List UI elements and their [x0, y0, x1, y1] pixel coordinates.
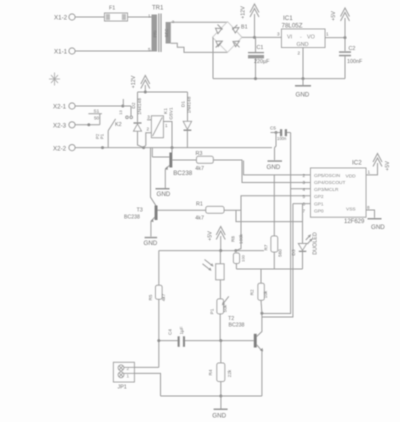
jumper JP1 [113, 362, 134, 390]
svg-text:3: 3 [277, 32, 280, 37]
node +12V junction [253, 36, 256, 39]
svg-text:P1: P1 [100, 133, 105, 139]
node R5 C4 [157, 339, 160, 342]
capacitor C2 [339, 38, 363, 79]
svg-text:D2: D2 [131, 102, 137, 108]
svg-text:F1: F1 [109, 6, 115, 12]
resistor R5 [148, 251, 166, 368]
node R8 on +5V rail [234, 249, 237, 252]
svg-text:D1: D1 [180, 101, 186, 107]
svg-text:GND: GND [296, 92, 310, 99]
svg-text:R4: R4 [208, 369, 213, 375]
svg-text:2: 2 [127, 366, 130, 371]
svg-text:100: 100 [241, 254, 246, 261]
node +12V relay [144, 91, 147, 94]
resistor R7 vertical to GP5 [264, 175, 283, 269]
transistor T4 [152, 148, 196, 188]
wire X2-3 [75, 124, 100, 126]
capacitor C1 [248, 37, 270, 78]
svg-text:12F629: 12F629 [344, 219, 365, 225]
capacitor C4 [168, 326, 186, 346]
svg-text:560: 560 [277, 249, 282, 257]
wire R1 to GP2 net [224, 209, 241, 211]
wire R3 to GP4 [213, 160, 310, 183]
svg-text:-: - [300, 35, 302, 41]
svg-text:+5V: +5V [331, 11, 337, 21]
wire GP1 vertical pair [262, 204, 293, 317]
transistor T3 [124, 148, 206, 237]
svg-text:50: 50 [94, 116, 100, 121]
svg-text:4k7: 4k7 [195, 166, 204, 172]
svg-text:+12V: +12V [241, 6, 247, 19]
wire F1 to TR1 [128, 16, 152, 18]
svg-text:X1-2: X1-2 [54, 15, 68, 22]
wire 0V rail psu [213, 78, 345, 80]
svg-text:T3: T3 [137, 208, 143, 214]
capacitor R8 branch [230, 233, 245, 269]
svg-text:X2-1: X2-1 [53, 104, 67, 111]
svg-text:1N4148: 1N4148 [187, 96, 193, 113]
svg-text:PRI: PRI [153, 31, 158, 38]
ground IC2 [368, 218, 386, 231]
svg-text:BC238: BC238 [124, 215, 140, 221]
wire cathode rail y269 [236, 268, 302, 270]
node R4 bottom [219, 395, 222, 398]
transformer TR1 [148, 6, 175, 53]
wire IC1 out [325, 37, 345, 39]
svg-text:220µF: 220µF [254, 59, 270, 65]
node X2-1 junction [121, 105, 124, 108]
svg-text:1: 1 [326, 32, 329, 37]
svg-text:1N4148: 1N4148 [137, 98, 143, 115]
wire C5 node to mid gnd [275, 133, 277, 148]
svg-text:VDD: VDD [346, 173, 357, 179]
ground psu [295, 79, 311, 99]
svg-text:78L05Z: 78L05Z [282, 23, 303, 30]
svg-text:1: 1 [368, 170, 371, 175]
svg-text:C5: C5 [270, 126, 276, 131]
pin labels P2 P1 [95, 133, 105, 139]
node C1 bottom [254, 77, 257, 80]
svg-text:+5V: +5V [385, 161, 391, 171]
svg-text:+12V: +12V [131, 75, 137, 88]
node T2 collector [260, 312, 263, 315]
svg-text:GND: GND [212, 412, 226, 419]
wire X1-1 to TR1 [75, 50, 151, 52]
wire TR1 secondary top to bridge [171, 21, 228, 23]
svg-text:GND: GND [267, 164, 281, 171]
wire GP1 to LED [302, 204, 304, 244]
svg-text:DUOLED: DUOLED [312, 232, 318, 255]
svg-text:100n: 100n [277, 136, 287, 141]
node IC1 gnd [302, 77, 305, 80]
wire R1 tap to LED [236, 210, 303, 221]
svg-text:JP1: JP1 [118, 385, 127, 391]
svg-text:K1: K1 [163, 108, 169, 114]
svg-text:5: 5 [302, 194, 305, 199]
terminal X2-3 [53, 122, 75, 130]
wire GP1 pin [293, 203, 311, 205]
wire bottom rail [161, 395, 262, 397]
svg-text:2: 2 [147, 127, 150, 132]
wire base node line [159, 340, 254, 342]
svg-text:4: 4 [302, 187, 305, 192]
svg-text:1: 1 [148, 14, 151, 19]
wire GP3 pin [291, 188, 311, 190]
svg-text:50k: 50k [223, 304, 228, 312]
svg-text:R8: R8 [230, 236, 235, 242]
diode D2 [131, 92, 144, 148]
wire X2-1 [75, 105, 131, 107]
diode D1 [180, 92, 192, 148]
node X2-3 junction [87, 123, 90, 126]
node D2 bottom rail [142, 146, 145, 149]
node X2-2 junction [101, 146, 104, 149]
svg-text:GP1: GP1 [314, 202, 324, 208]
resistor R3 [195, 151, 213, 172]
node +5V junction [344, 36, 347, 39]
svg-text:GND: GND [144, 240, 158, 247]
svg-text:13: 13 [118, 110, 123, 115]
svg-text:1: 1 [127, 373, 130, 378]
resistor R2 [250, 269, 269, 313]
ground T4 [156, 188, 171, 198]
wire JP1 pin2 [124, 366, 159, 368]
svg-text:R7: R7 [264, 244, 269, 250]
svg-text:R5: R5 [148, 294, 153, 300]
svg-text:C1: C1 [257, 45, 264, 51]
ground T3 [144, 237, 158, 247]
svg-text:5: 5 [148, 47, 151, 52]
svg-text:IC1: IC1 [283, 15, 293, 22]
svg-text:GP3/MCLR: GP3/MCLR [314, 187, 339, 193]
svg-text:K2: K2 [115, 122, 122, 128]
svg-text:GP5/OSCIN: GP5/OSCIN [314, 173, 341, 179]
svg-text:GP4/OSCOUT: GP4/OSCOUT [314, 180, 346, 186]
svg-text:10k: 10k [263, 290, 268, 298]
svg-text:C4: C4 [168, 329, 173, 335]
svg-text:1: 1 [165, 123, 168, 128]
terminal X2-1 [53, 103, 75, 111]
terminal X2-2 [53, 145, 75, 153]
svg-text:2: 2 [302, 173, 305, 178]
terminal X1-1 [54, 48, 75, 56]
svg-text:1µF: 1µF [179, 326, 184, 334]
fuse F1 [105, 6, 128, 22]
wire GP2 to R8 [236, 196, 311, 251]
svg-text:VI: VI [287, 35, 292, 41]
supply arrow +5V top [331, 8, 350, 37]
svg-text:BC238: BC238 [229, 322, 245, 328]
transistor T2 [228, 313, 263, 396]
svg-text:GP0: GP0 [314, 209, 324, 215]
microcontroller IC2 [302, 160, 366, 226]
svg-text:GND: GND [297, 42, 309, 48]
svg-text:3: 3 [302, 180, 305, 185]
svg-text:G5V1: G5V1 [168, 107, 174, 120]
svg-text:R1: R1 [196, 202, 203, 208]
wire X2-2 common rail [75, 147, 272, 149]
ground stub mid [267, 148, 283, 171]
svg-text:X2-3: X2-3 [53, 123, 67, 130]
wire +12V relay rail [138, 91, 188, 93]
svg-text:2: 2 [298, 51, 301, 56]
resistor R1 [195, 202, 224, 222]
bridge rectifier B1 [213, 22, 248, 53]
registration mark [49, 73, 60, 86]
svg-text:a: a [172, 19, 175, 24]
relay K1 [144, 107, 175, 148]
relay contact K2 [108, 106, 132, 148]
duo LED D3 [291, 232, 318, 269]
wire bridge to IC1 [242, 36, 282, 38]
capacitor C5 [270, 126, 291, 142]
svg-text:IC2: IC2 [352, 160, 362, 167]
switch S1 [88, 109, 102, 125]
svg-text:100k: 100k [239, 233, 244, 244]
voltage regulator IC1 [277, 15, 329, 79]
LDR R6 [203, 251, 225, 299]
ground bottom [212, 396, 227, 419]
svg-text:T2: T2 [228, 316, 234, 322]
svg-text:+5V: +5V [208, 231, 214, 241]
wire JP1 pin1 [124, 373, 161, 396]
supply arrow +5V ic2 [373, 154, 391, 171]
supply arrow +5V lower [208, 227, 226, 251]
wire VSS [366, 205, 375, 218]
terminal X1-2 [54, 14, 75, 22]
svg-text:GP2: GP2 [314, 194, 324, 200]
svg-text:GND: GND [157, 191, 171, 198]
svg-text:D3: D3 [291, 249, 297, 255]
svg-text:X2-2: X2-2 [53, 146, 67, 153]
svg-text:X1-1: X1-1 [54, 49, 68, 56]
svg-text:R2: R2 [250, 289, 255, 295]
svg-text:VSS: VSS [346, 207, 356, 213]
resistor R4 [208, 341, 232, 396]
svg-text:4k7: 4k7 [195, 215, 204, 221]
wire stub above X2-1 node [122, 99, 124, 106]
node relay pin1 rail [171, 146, 174, 149]
wire GP5 tap [244, 161, 311, 175]
wire +5V rail lower [159, 250, 264, 252]
wire TR1 secondary bottom to bridge [171, 43, 228, 52]
svg-text:TR1: TR1 [152, 6, 164, 12]
wire C5 to GP3 vertical [262, 133, 291, 314]
svg-text:S1: S1 [94, 109, 100, 114]
trimmer P1 [209, 296, 228, 340]
wire VDD [366, 163, 378, 175]
wire bridge minus down [212, 37, 214, 78]
supply arrow +12V relay [131, 75, 150, 92]
svg-text:100nF: 100nF [347, 59, 363, 65]
supply arrow +12V [241, 4, 260, 37]
svg-text:4k7: 4k7 [161, 293, 166, 301]
svg-text:VO: VO [307, 35, 315, 41]
svg-text:3: 3 [147, 115, 150, 120]
svg-text:22k: 22k [227, 369, 232, 377]
svg-text:GND: GND [371, 224, 385, 231]
wire X1-2 to F1 [75, 16, 104, 18]
node LDR top [219, 249, 222, 252]
svg-text:BC238: BC238 [173, 170, 192, 177]
svg-text:SEC: SEC [164, 29, 169, 38]
node P1 R4 [219, 339, 222, 342]
svg-text:C2: C2 [349, 46, 356, 52]
svg-text:8: 8 [367, 205, 370, 210]
svg-text:B1: B1 [241, 25, 248, 31]
svg-text:P1: P1 [209, 308, 214, 314]
